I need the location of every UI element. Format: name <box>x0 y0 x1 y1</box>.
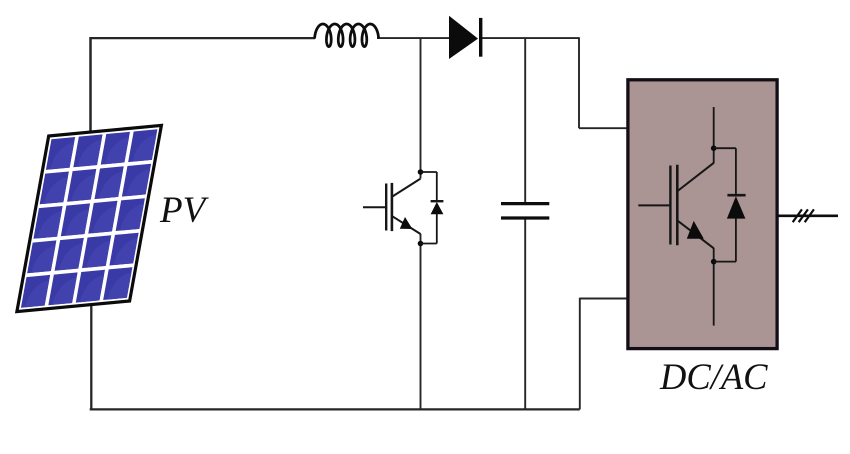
inverter block DC/AC (box) <box>628 80 777 349</box>
inductor L (boost coil) <box>315 24 379 47</box>
node dot: Q2 emitter junction <box>711 259 717 265</box>
wire right vertical down to bottom rail <box>579 298 581 410</box>
diode D (boost diode) <box>449 16 481 59</box>
svg-text:DC/AC: DC/AC <box>659 356 768 397</box>
wire bottom rail <box>90 408 580 410</box>
wire diode cathode to right segment <box>481 37 580 39</box>
node dot: Q1 collector junction <box>418 169 424 175</box>
wire right vertical down from top rail <box>578 37 580 128</box>
wire from PV panel bottom down to bottom rail <box>90 300 92 409</box>
wire capacitor branch lower <box>524 217 526 409</box>
wire into DC/AC box top-left <box>579 127 627 129</box>
wire IGBT branch vertical upper <box>420 38 422 178</box>
wire AC output from inverter <box>777 215 839 218</box>
wire left vertical from top rail down to PV panel <box>89 37 92 133</box>
three-phase hatch marks <box>793 209 814 222</box>
diode D2 (antiparallel across Q2) <box>714 148 746 261</box>
node dot: Q2 collector junction <box>711 145 717 151</box>
wire top rail left segment (PV to inductor) <box>91 37 316 39</box>
wire out of DC/AC box bottom-left <box>580 298 627 300</box>
svg-text:PV: PV <box>159 190 210 231</box>
wire IGBT branch vertical lower <box>420 234 422 410</box>
diode D1 (antiparallel across Q1) <box>421 172 444 244</box>
PV solar panel <box>17 125 162 311</box>
transistor Q1 (IGBT of boost stage) <box>363 179 421 234</box>
transistor Q2 (IGBT inside inverter) <box>638 107 714 326</box>
capacitor C (DC link) <box>501 204 549 218</box>
wire inductor to diode segment <box>377 37 450 39</box>
node dot: Q1 emitter junction <box>418 241 424 247</box>
wire capacitor branch upper <box>524 38 526 202</box>
